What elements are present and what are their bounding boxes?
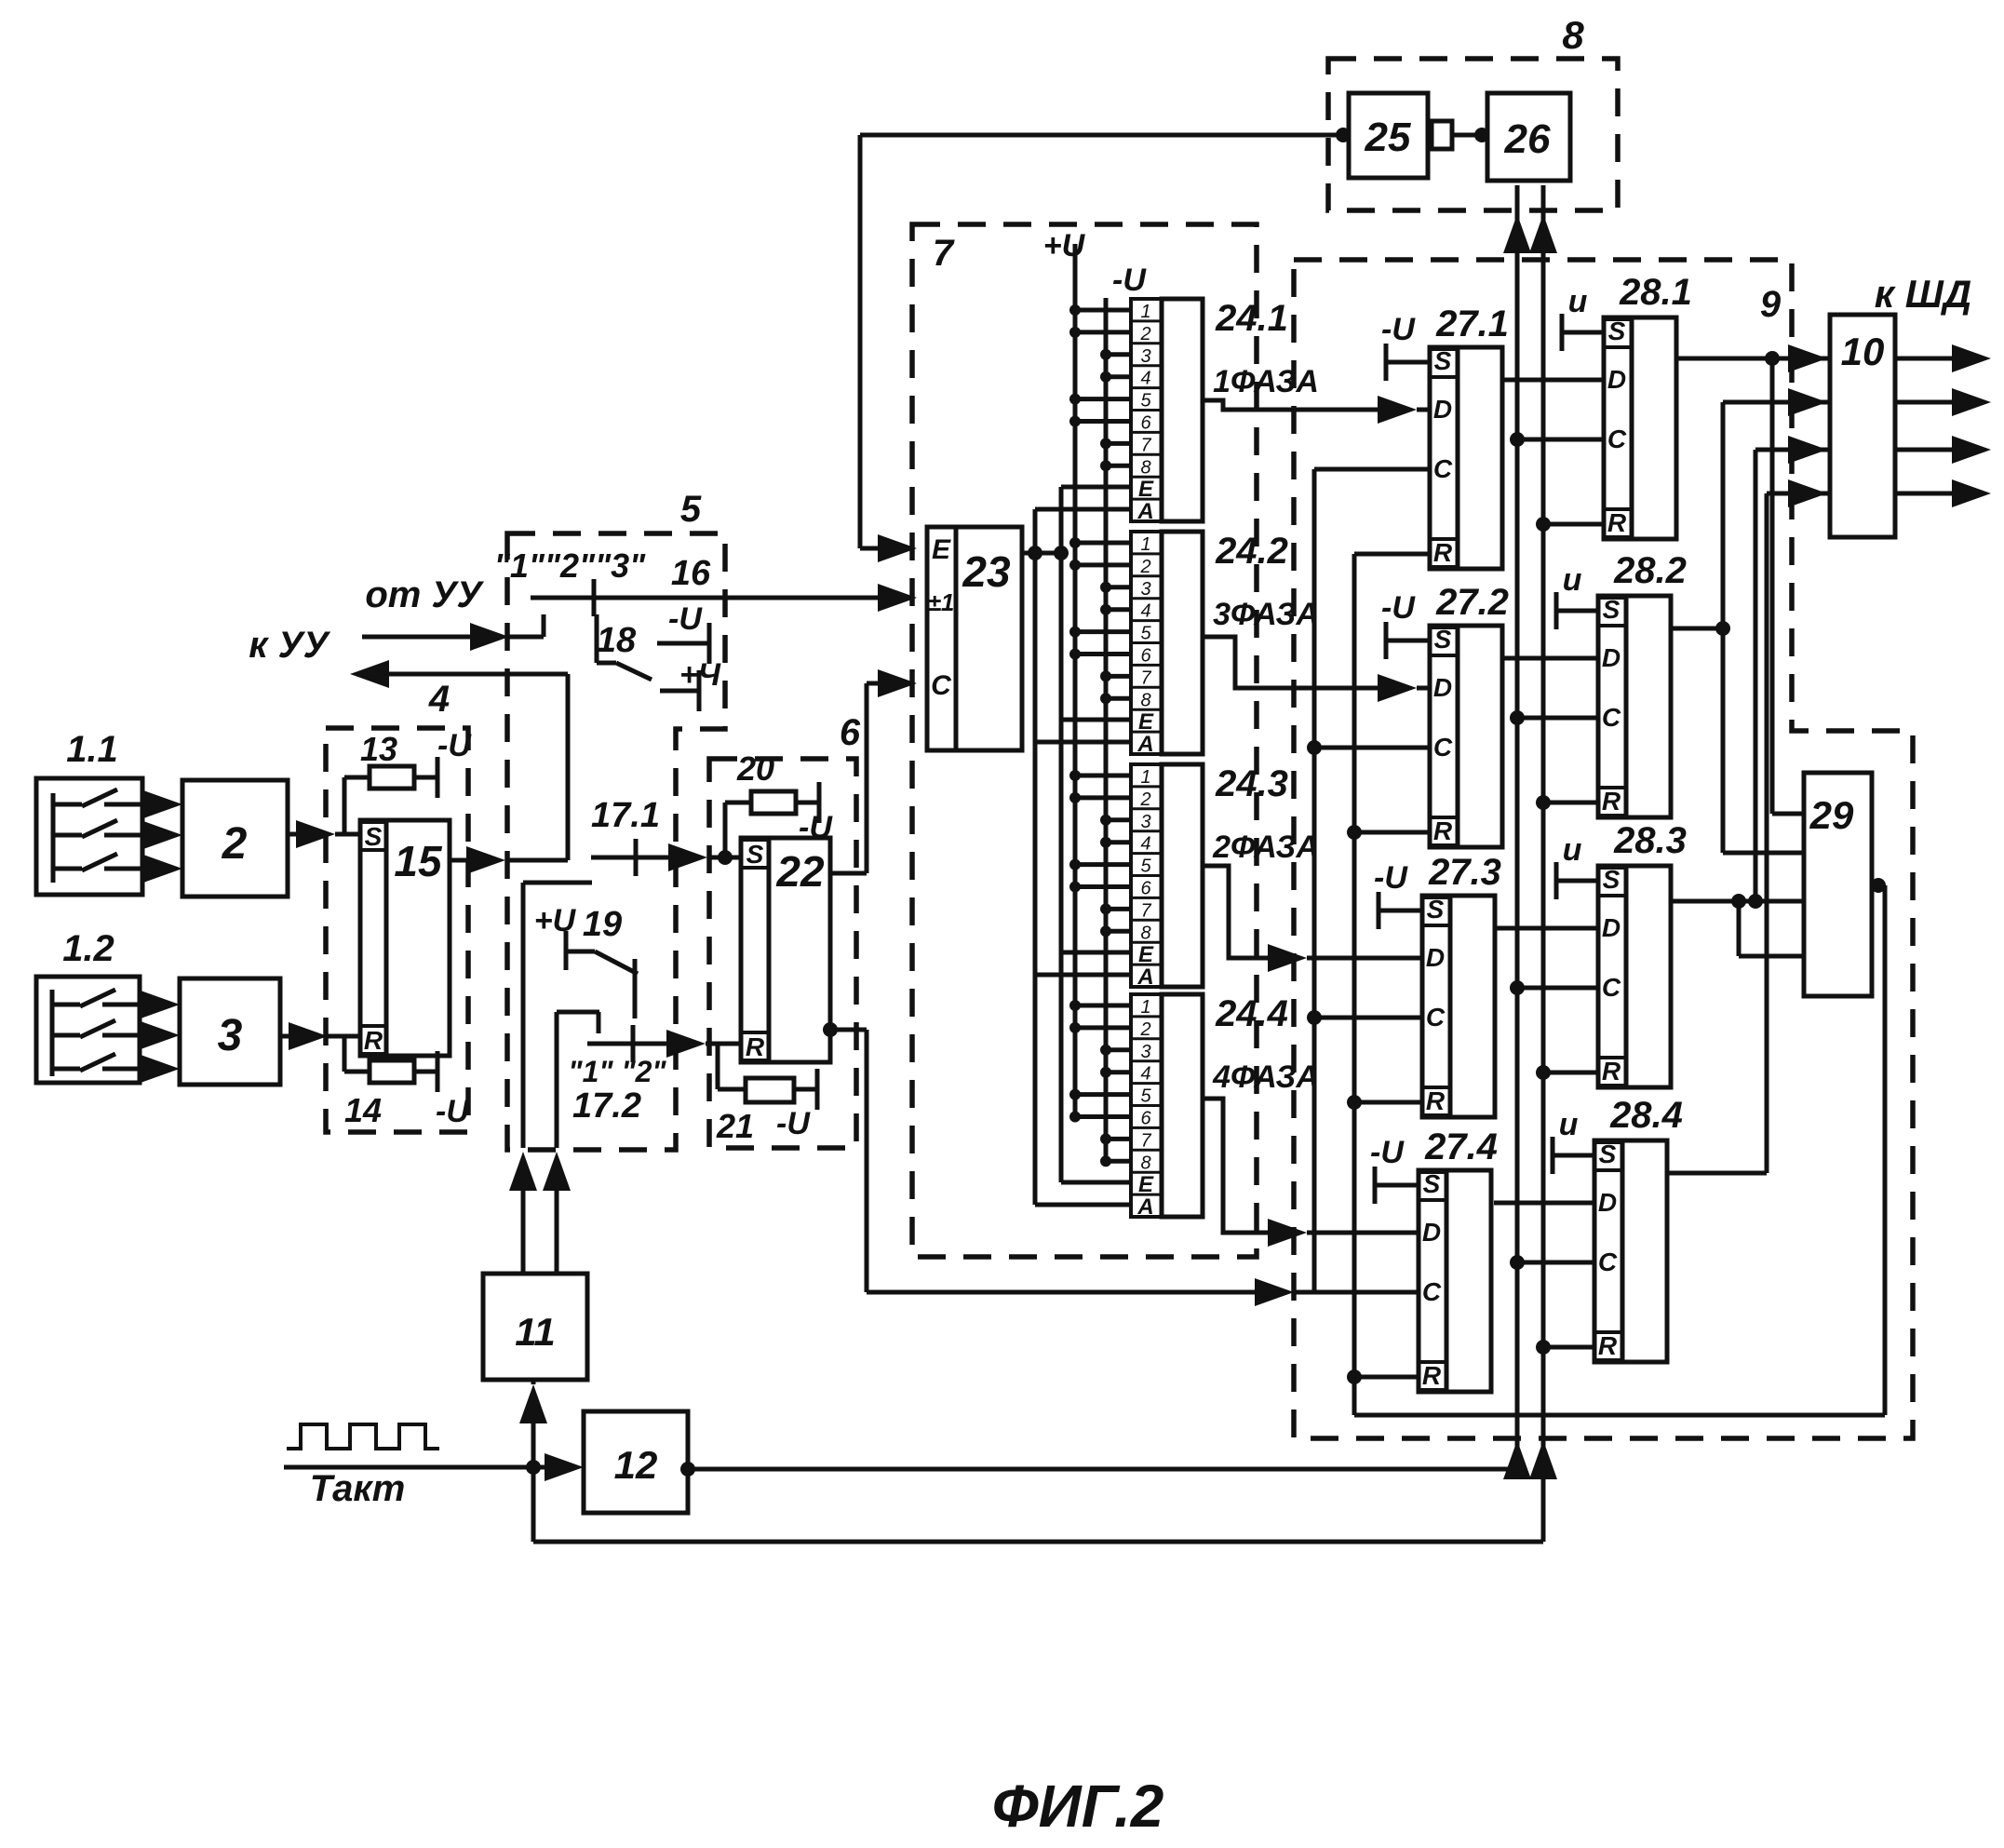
switch contacts 1.2: [50, 990, 55, 1076]
dashed block 8: [1328, 59, 1618, 210]
output 24.3 to D of 27.3: [1203, 866, 1277, 958]
svg-text:"1" "2": "1" "2": [568, 1055, 666, 1088]
svg-text:7: 7: [1140, 1130, 1151, 1151]
svg-text:C: C: [1426, 1003, 1446, 1032]
wire Q27.1 to D28.1: [1502, 378, 1604, 383]
svg-text:D: D: [1602, 643, 1621, 672]
wire Q28.3 to 10 and 29: [1669, 899, 1804, 904]
svg-text:S: S: [365, 822, 383, 851]
svg-text:8: 8: [1140, 690, 1150, 710]
wires 1.2 to 3: [140, 1003, 152, 1007]
svg-text:S: S: [1608, 317, 1626, 345]
output arrows of 10: [1895, 357, 1959, 361]
svg-text:D: D: [1422, 1218, 1441, 1247]
svg-text:24.4: 24.4: [1215, 993, 1288, 1034]
output 23 to decoder buses: [1022, 551, 1061, 556]
svg-text:C: C: [1607, 425, 1627, 453]
wires 1.1 to 2: [142, 803, 155, 807]
svg-text:19: 19: [583, 905, 622, 944]
svg-text:R: R: [1598, 1331, 1618, 1360]
wire to 11: [531, 1415, 536, 1467]
svg-text:25: 25: [1365, 115, 1411, 160]
svg-text:1.1: 1.1: [66, 729, 118, 770]
wire Q28.1 to 10 and 29: [1675, 357, 1830, 361]
svg-text:R: R: [1602, 1057, 1621, 1086]
svg-text:A: A: [1136, 499, 1153, 524]
E A stubs of 24.4: [1061, 1180, 1131, 1185]
svg-text:1.2: 1.2: [62, 928, 114, 969]
flip-flop 27.3: [1422, 896, 1495, 1117]
svg-text:2: 2: [1139, 557, 1150, 577]
+U rail: [1073, 244, 1078, 1116]
svg-text:6: 6: [1140, 879, 1151, 899]
svg-text:R: R: [1602, 787, 1621, 816]
svg-text:20: 20: [736, 749, 774, 788]
svg-text:28.2: 28.2: [1613, 550, 1687, 591]
svg-text:ФИГ.2: ФИГ.2: [992, 1773, 1164, 1840]
svg-text:7: 7: [1140, 668, 1151, 688]
svg-text:E: E: [1138, 477, 1154, 502]
svg-text:±1: ±1: [928, 588, 955, 616]
svg-text:u: u: [1559, 1107, 1579, 1142]
wire Q28.4 to 10: [1666, 1171, 1767, 1176]
svg-text:+U: +U: [534, 903, 577, 938]
svg-text:S: S: [1434, 625, 1452, 654]
svg-text:4: 4: [1140, 834, 1150, 855]
E A stubs of 24.3: [1061, 951, 1131, 955]
svg-text:24.2: 24.2: [1215, 531, 1288, 572]
svg-text:4: 4: [1140, 601, 1150, 622]
svg-text:-U: -U: [668, 601, 703, 637]
svg-text:13: 13: [360, 730, 397, 768]
pin stubs of 24.2: [1075, 541, 1131, 546]
-U rail: [1104, 298, 1109, 1161]
svg-text:A: A: [1136, 1194, 1153, 1220]
svg-text:7: 7: [933, 233, 955, 274]
svg-text:к УУ: к УУ: [249, 625, 330, 666]
block 26: [1487, 93, 1570, 181]
encoder block 2: [182, 780, 288, 897]
svg-text:12: 12: [614, 1443, 658, 1487]
coupler 25-26: [1432, 121, 1452, 149]
output 24.1 to D of 27.1: [1203, 400, 1387, 410]
svg-text:D: D: [1433, 395, 1452, 424]
RS trigger 15: [360, 820, 450, 1056]
svg-text:5: 5: [680, 489, 702, 530]
svg-text:C: C: [1433, 454, 1453, 483]
node stub: [509, 635, 544, 640]
block 29: [1804, 773, 1872, 996]
svg-text:24.1: 24.1: [1215, 298, 1288, 339]
resistor 13: [370, 766, 414, 789]
svg-text:D: D: [1602, 913, 1621, 942]
svg-text:27.4: 27.4: [1424, 1126, 1498, 1167]
counter 23: [927, 527, 1022, 750]
output 22 top to C of 23: [830, 871, 867, 876]
output 22 bottom: [823, 1022, 838, 1037]
resistor 20: [751, 791, 796, 814]
resistor 14 right terminal: [414, 1070, 437, 1074]
wire 12 to 26 and C bus: [680, 1462, 695, 1477]
svg-text:1: 1: [1140, 997, 1150, 1018]
svg-text:7: 7: [1140, 900, 1151, 921]
input arrows of 10: [1788, 344, 1827, 372]
pin stubs of 24.3: [1075, 774, 1131, 778]
A bus: [1033, 509, 1038, 1205]
dashed block 9: [1294, 260, 1913, 1438]
svg-text:18: 18: [597, 621, 637, 660]
flip-flop 28.4: [1594, 1140, 1667, 1362]
svg-text:E: E: [1138, 1172, 1154, 1197]
svg-text:R: R: [746, 1032, 765, 1061]
C bus of 27.x from trigger 22: [1312, 469, 1317, 1292]
svg-text:3: 3: [1140, 812, 1150, 832]
svg-text:S: S: [1427, 895, 1445, 924]
svg-text:D: D: [1433, 673, 1452, 702]
flip-flop 27.2: [1430, 626, 1502, 847]
svg-text:4: 4: [1140, 369, 1150, 389]
svg-text:3: 3: [1140, 579, 1150, 600]
dashed block 5: [507, 533, 725, 1150]
wire to 25 and E of 23: [860, 133, 1343, 138]
resistor 21 lead: [716, 1044, 720, 1089]
svg-text:2: 2: [1139, 1019, 1150, 1040]
svg-text:A: A: [1136, 964, 1153, 990]
svg-text:4: 4: [428, 679, 450, 720]
svg-text:17.1: 17.1: [591, 796, 660, 835]
svg-text:3: 3: [1140, 346, 1150, 367]
svg-text:2: 2: [1139, 789, 1150, 810]
R bus of 27.x from 29: [1352, 554, 1357, 1415]
dashed block 4: [326, 728, 468, 1132]
svg-text:1: 1: [1140, 534, 1150, 555]
wire 16 to counter: [531, 596, 887, 600]
svg-text:6: 6: [1140, 413, 1151, 434]
svg-text:28.4: 28.4: [1609, 1095, 1683, 1136]
E A stubs of 24.1: [1061, 485, 1131, 490]
svg-text:8: 8: [1140, 1153, 1150, 1173]
svg-text:1: 1: [1140, 302, 1150, 322]
wire 2 to S of 15: [288, 832, 307, 837]
resistor 14: [370, 1060, 414, 1083]
svg-text:2ФАЗА: 2ФАЗА: [1212, 830, 1319, 865]
svg-text:-U: -U: [1112, 263, 1147, 298]
svg-text:5: 5: [1140, 1086, 1151, 1107]
resistor 20 lead: [723, 803, 728, 857]
flip-flop 28.3: [1598, 866, 1671, 1087]
svg-text:C: C: [931, 670, 952, 701]
wire from 11 first: [521, 883, 526, 1148]
flip-flop 28.1: [1604, 317, 1676, 539]
svg-text:E: E: [932, 534, 951, 565]
svg-text:A: A: [1136, 732, 1153, 757]
svg-text:-U: -U: [436, 1094, 470, 1129]
svg-text:10: 10: [1841, 330, 1885, 373]
output 24.2 to D of 27.2: [1203, 637, 1387, 688]
svg-text:C: C: [1598, 1248, 1618, 1276]
svg-text:D: D: [1607, 365, 1626, 394]
svg-text:22: 22: [775, 847, 825, 896]
svg-text:5: 5: [1140, 391, 1151, 411]
svg-text:28.3: 28.3: [1613, 820, 1687, 861]
pin stubs of 24.4: [1075, 1004, 1131, 1008]
switch contacts 1.1: [51, 793, 56, 883]
wire from 11 second: [555, 1012, 559, 1148]
pin stubs of 24.1: [1075, 308, 1131, 313]
svg-text:u: u: [1563, 832, 1582, 868]
decoder 24.2: [1131, 532, 1162, 754]
wire Q27.4 to D28.4: [1494, 1201, 1594, 1206]
svg-text:C: C: [1602, 703, 1621, 732]
feedback vertical: [566, 674, 571, 860]
C stubs of 28.x: [1517, 438, 1604, 442]
svg-text:27.3: 27.3: [1428, 852, 1501, 893]
svg-text:17.2: 17.2: [572, 1086, 641, 1126]
svg-text:S: S: [1603, 595, 1621, 624]
svg-text:-U: -U: [1381, 312, 1416, 347]
svg-text:16: 16: [671, 554, 711, 593]
switch block 1.2: [36, 977, 140, 1083]
svg-text:27.2: 27.2: [1435, 582, 1509, 623]
svg-text:D: D: [1426, 943, 1445, 972]
svg-text:-U: -U: [1374, 860, 1408, 896]
svg-text:R: R: [1422, 1361, 1442, 1390]
svg-text:R: R: [1607, 508, 1627, 537]
svg-text:S: S: [746, 840, 764, 869]
svg-text:S: S: [1603, 865, 1621, 894]
svg-text:S: S: [1599, 1140, 1617, 1168]
svg-text:-U: -U: [776, 1106, 811, 1141]
svg-text:R: R: [1426, 1086, 1446, 1115]
decoder 24.1: [1131, 299, 1162, 521]
svg-text:S: S: [1423, 1169, 1441, 1198]
svg-text:2: 2: [222, 819, 248, 869]
svg-text:u: u: [1568, 284, 1588, 319]
svg-text:4ФАЗА: 4ФАЗА: [1212, 1059, 1319, 1095]
resistor 21 right terminal: [794, 1087, 817, 1092]
svg-text:от УУ: от УУ: [365, 574, 484, 615]
dashed block 6: [709, 759, 856, 1148]
wire 3 to R of 15: [280, 1034, 300, 1039]
svg-text:S: S: [1434, 346, 1452, 375]
svg-text:1: 1: [1140, 767, 1150, 788]
block 12: [584, 1411, 688, 1513]
svg-text:C: C: [1422, 1277, 1442, 1306]
svg-text:E: E: [1138, 942, 1154, 967]
svg-text:4: 4: [1140, 1064, 1150, 1085]
svg-text:C: C: [1602, 973, 1621, 1002]
svg-text:-U: -U: [1381, 590, 1416, 626]
svg-text:5: 5: [1140, 857, 1151, 877]
svg-text:26: 26: [1504, 116, 1551, 162]
block 10: [1830, 315, 1895, 537]
wire 22 to C bus of block 9: [867, 1290, 1264, 1295]
resistor 14 lead: [343, 1036, 347, 1072]
svg-text:-U: -U: [437, 728, 472, 763]
svg-text:D: D: [1598, 1188, 1617, 1217]
svg-text:3: 3: [218, 1011, 243, 1060]
svg-text:11: 11: [515, 1310, 556, 1354]
svg-text:23: 23: [962, 547, 1011, 596]
svg-text:24.3: 24.3: [1215, 763, 1288, 804]
svg-text:6: 6: [1140, 646, 1151, 667]
R stubs of 28.x: [1543, 522, 1604, 527]
svg-text:3: 3: [1140, 1042, 1150, 1062]
switch block 1.1: [36, 778, 142, 895]
wire Q28.2 to 10 and 29: [1672, 627, 1723, 631]
flip-flop 27.4: [1419, 1170, 1491, 1392]
resistor 21: [746, 1078, 794, 1102]
svg-text:28.1: 28.1: [1619, 272, 1692, 313]
svg-text:9: 9: [1760, 284, 1782, 325]
flip-flop 27.1: [1430, 347, 1502, 569]
svg-text:14: 14: [344, 1091, 382, 1129]
resistor 13 right terminal: [414, 776, 437, 780]
svg-text:R: R: [364, 1026, 383, 1055]
svg-text:Такт: Такт: [310, 1468, 406, 1509]
svg-text:27.1: 27.1: [1435, 304, 1509, 344]
E A stubs of 24.2: [1061, 718, 1131, 722]
E bus: [1059, 487, 1064, 1182]
clock wire: [284, 1465, 533, 1470]
output 24.4 to D of 27.4: [1203, 1099, 1277, 1233]
block 25: [1349, 93, 1428, 178]
wire Q27.2 to D28.2: [1502, 656, 1598, 661]
svg-text:8: 8: [1140, 457, 1150, 478]
decoder 24.3: [1131, 764, 1162, 987]
svg-text:15: 15: [394, 837, 443, 885]
svg-text:3ФАЗА: 3ФАЗА: [1213, 597, 1319, 632]
svg-text:u: u: [1563, 562, 1582, 598]
svg-text:+U: +U: [1043, 228, 1086, 263]
encoder block 3: [180, 978, 280, 1085]
resistor 20 right terminal: [796, 801, 819, 805]
svg-text:C: C: [1433, 733, 1453, 762]
svg-text:29: 29: [1809, 793, 1854, 837]
svg-text:к ШД: к ШД: [1875, 272, 1971, 316]
svg-text:5: 5: [1140, 624, 1151, 644]
svg-text:8: 8: [1562, 13, 1584, 57]
svg-text:"1""2""3": "1""2""3": [494, 546, 646, 585]
svg-text:7: 7: [1140, 435, 1151, 455]
wire to 12: [533, 1465, 558, 1470]
flip-flop 28.2: [1598, 596, 1671, 817]
decoder 24.4: [1131, 994, 1162, 1217]
svg-text:6: 6: [840, 712, 861, 753]
svg-text:R: R: [1433, 816, 1453, 845]
output wire of 15: [450, 858, 477, 863]
wire 17.2: [587, 1042, 676, 1046]
RS trigger 22: [741, 838, 830, 1062]
svg-text:8: 8: [1140, 923, 1150, 943]
svg-text:E: E: [1138, 709, 1154, 735]
clock waveform: [287, 1424, 439, 1449]
block 11: [483, 1274, 587, 1380]
svg-text:21: 21: [716, 1107, 754, 1145]
resistor 13 lead: [343, 777, 347, 834]
svg-text:6: 6: [1140, 1109, 1151, 1129]
svg-text:R: R: [1433, 538, 1453, 567]
svg-text:2: 2: [1139, 324, 1150, 344]
dashed block 7: [912, 224, 1257, 1257]
svg-text:-U: -U: [1370, 1135, 1405, 1170]
lower wire to 26 and R bus: [531, 1467, 536, 1542]
wire Q27.3 to D28.3: [1496, 926, 1598, 931]
svg-text:1ФАЗА: 1ФАЗА: [1213, 364, 1319, 399]
